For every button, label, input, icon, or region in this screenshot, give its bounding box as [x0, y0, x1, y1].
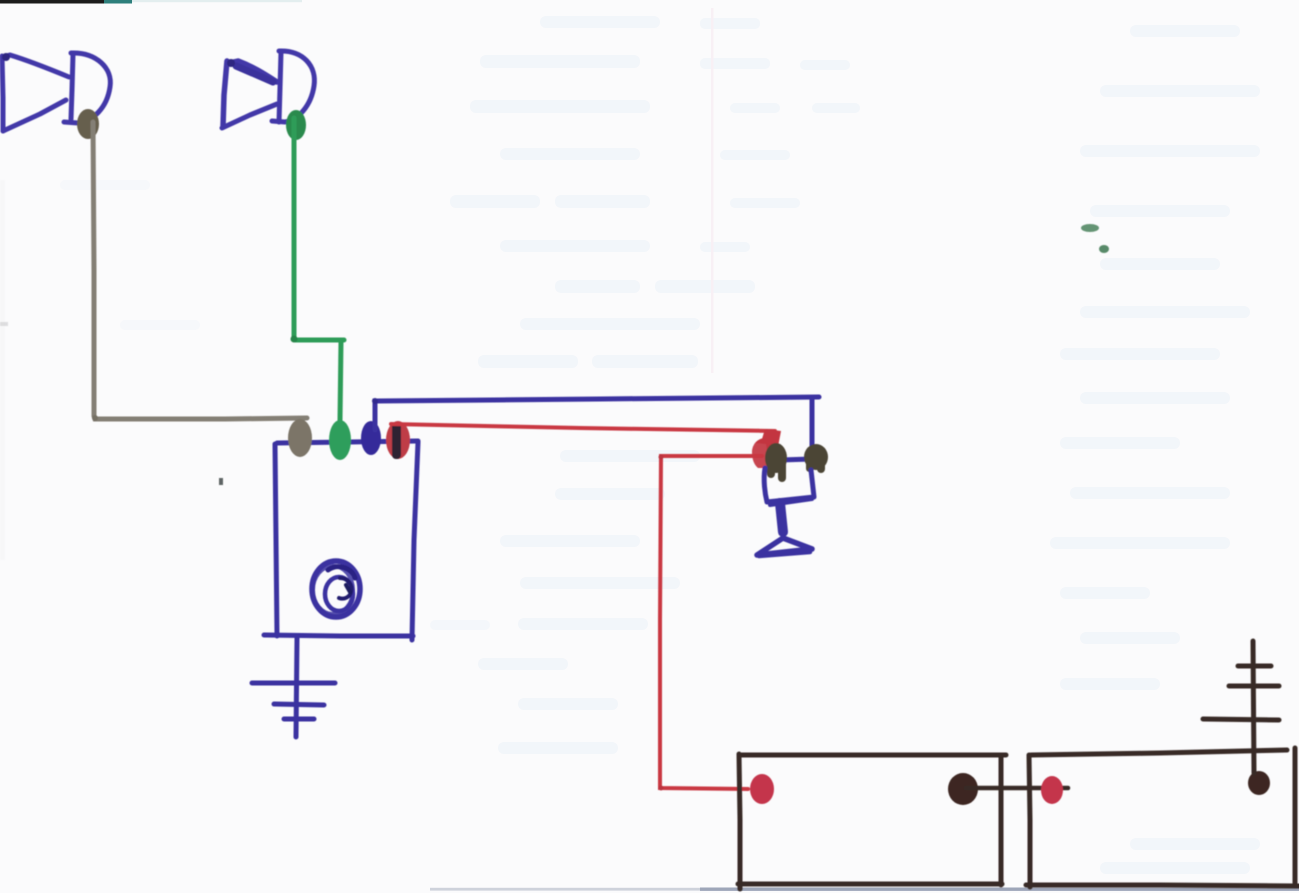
scanner edge top: [0, 0, 302, 4]
battery B1 box: [738, 754, 1006, 889]
battery B1 positive terminal: [750, 774, 774, 804]
ink specks: [0, 180, 1109, 560]
relay terminal blue: [361, 421, 381, 455]
horn button S1: [757, 443, 828, 556]
horn H2: [222, 51, 314, 128]
battery B1 negative terminal: [948, 773, 978, 805]
margin line bleed: [711, 8, 714, 373]
horn H1 lead blob: [77, 109, 99, 139]
horn H2 lead blob: [286, 110, 306, 140]
relay terminal green: [329, 420, 351, 460]
stroke corner knots: [2, 53, 664, 791]
relay K1 box: [264, 441, 418, 640]
relay terminal gray: [288, 419, 312, 457]
wire red button to battery: [660, 456, 762, 789]
red connector at button: [752, 429, 781, 468]
battery B2 positive terminal: [1041, 776, 1063, 804]
wire battery link: [966, 786, 1068, 791]
wire gray horn1 to relay: [93, 122, 307, 419]
battery B2 box: [1026, 748, 1299, 887]
ground relay: [252, 638, 335, 737]
battery B2 negative terminal: [1248, 771, 1270, 795]
wire green horn2 to relay: [294, 118, 344, 420]
ground battery: [1203, 641, 1279, 773]
scanner edge bottom: [430, 888, 1299, 891]
horn H1: [2, 53, 110, 131]
relay terminal red-black: [386, 421, 410, 459]
relay coil: [312, 561, 360, 617]
wire red relay to button: [391, 424, 775, 431]
wire blue relay to button: [375, 397, 819, 448]
